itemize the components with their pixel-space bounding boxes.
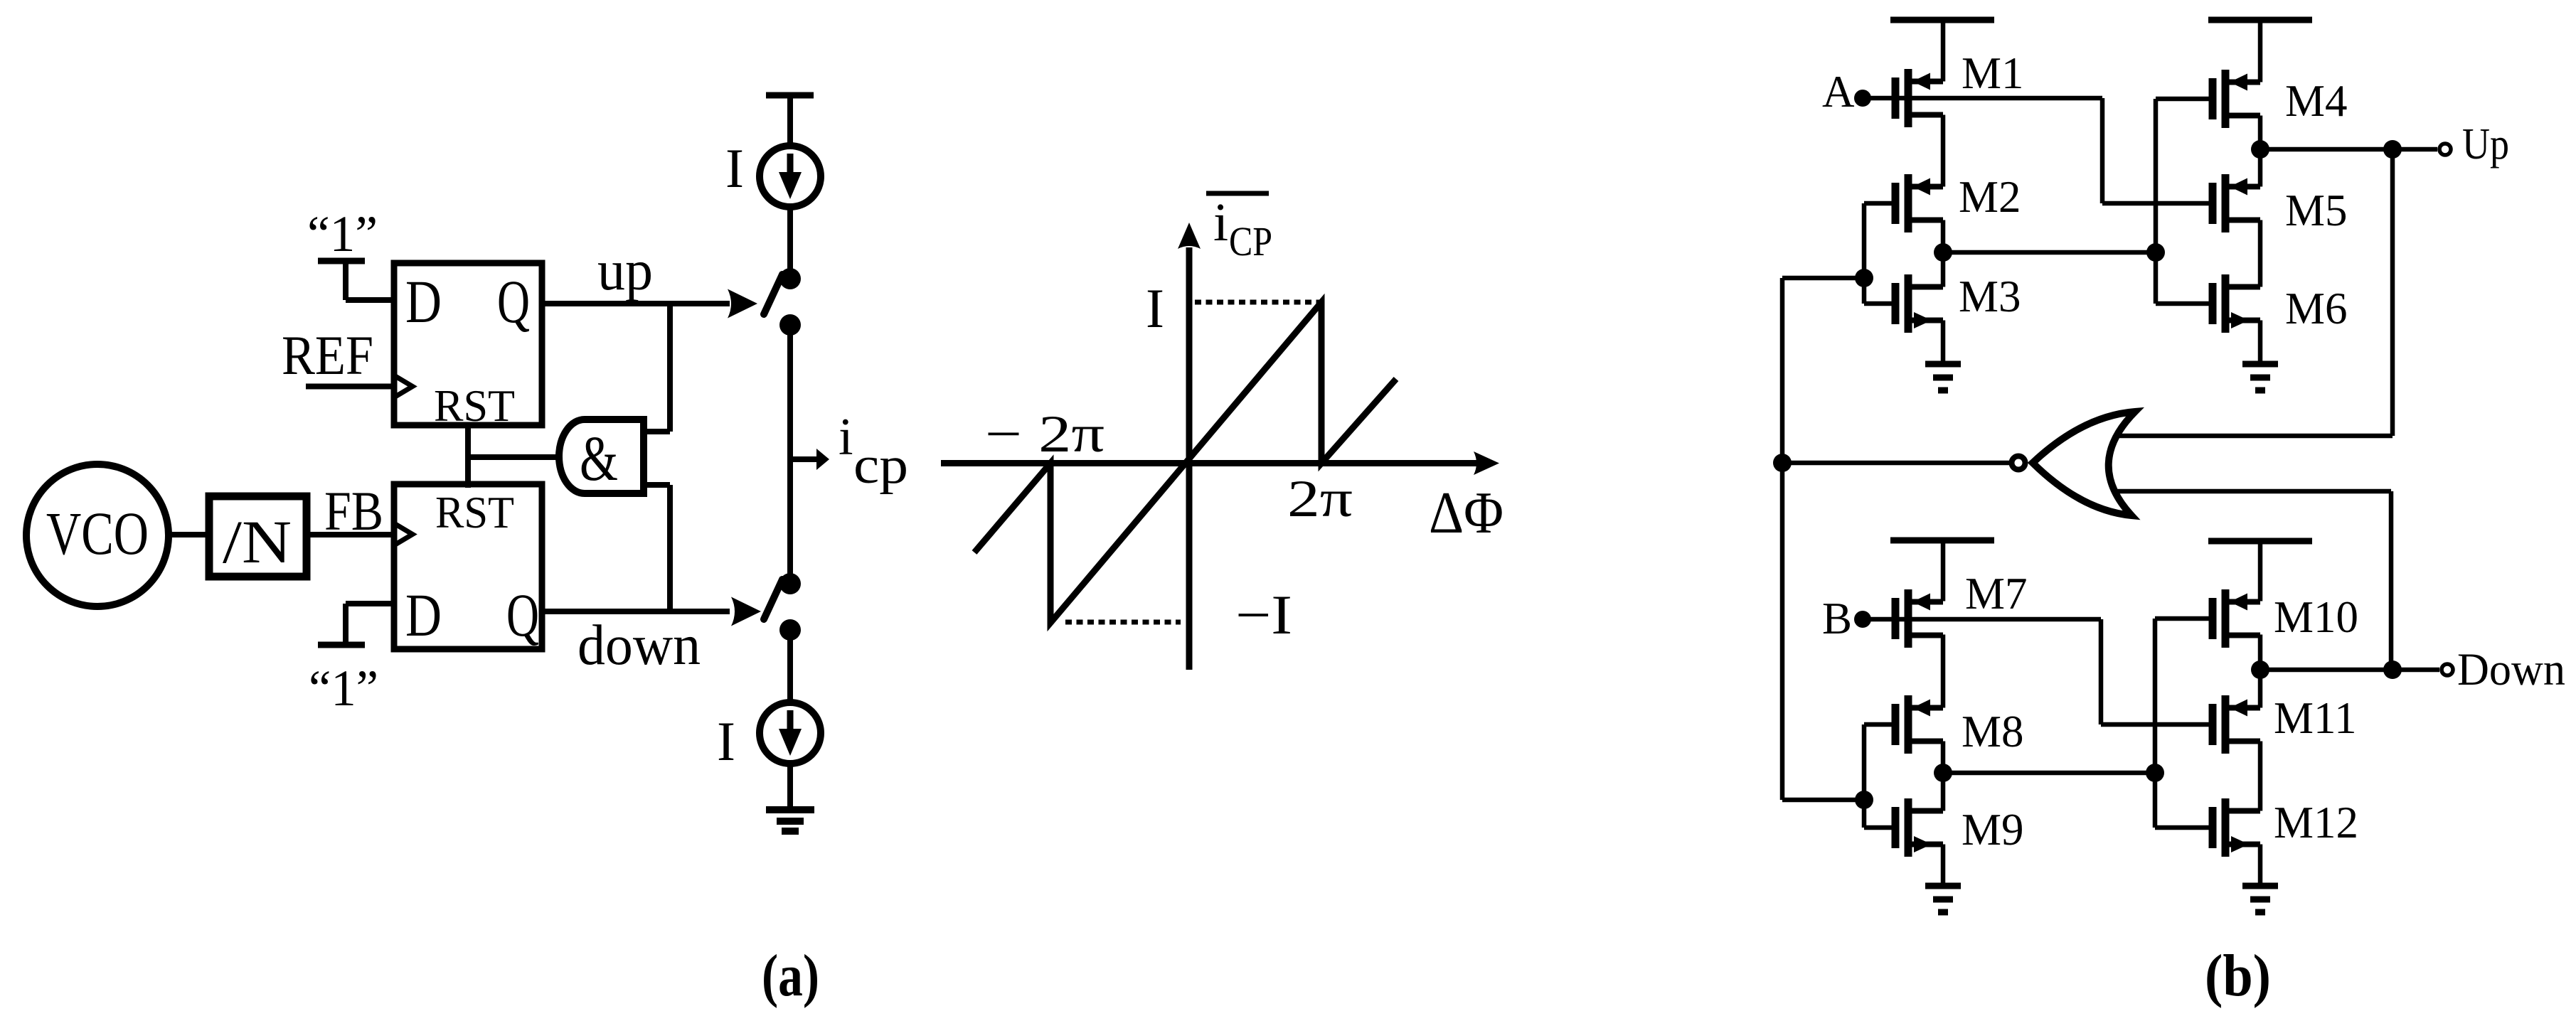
svg-text:M2: M2 <box>1959 172 2021 222</box>
svg-text:FB: FB <box>324 480 383 542</box>
svg-text:M3: M3 <box>1959 272 2021 321</box>
svg-text:M4: M4 <box>2285 76 2348 126</box>
svg-text:I: I <box>725 137 744 199</box>
svg-text:− 2π: − 2π <box>985 405 1105 464</box>
svg-text:&: & <box>580 424 618 494</box>
svg-text:CP: CP <box>1229 218 1272 264</box>
svg-text:down: down <box>578 614 701 677</box>
svg-text:/N: /N <box>223 508 292 576</box>
svg-text:i: i <box>839 408 853 466</box>
svg-text:M5: M5 <box>2285 186 2348 235</box>
svg-text:i: i <box>1213 193 1228 252</box>
svg-text:M11: M11 <box>2274 693 2357 743</box>
svg-text:M10: M10 <box>2274 592 2358 642</box>
svg-text:Up: Up <box>2462 120 2509 168</box>
svg-text:M1: M1 <box>1962 48 2024 98</box>
svg-text:(b): (b) <box>2205 943 2271 1009</box>
svg-text:RST: RST <box>434 380 515 431</box>
svg-text:−I: −I <box>1235 584 1292 646</box>
svg-text:M6: M6 <box>2285 284 2348 333</box>
svg-text:Q: Q <box>497 267 530 336</box>
svg-text:M8: M8 <box>1962 707 2024 756</box>
svg-text:REF: REF <box>282 324 373 386</box>
svg-text:D: D <box>405 267 442 336</box>
svg-text:cp: cp <box>853 437 908 495</box>
svg-text:VCO: VCO <box>46 499 149 567</box>
svg-text:(a): (a) <box>762 943 819 1009</box>
svg-text:2π: 2π <box>1287 470 1353 528</box>
svg-text:RST: RST <box>435 487 514 537</box>
svg-text:I: I <box>1146 277 1164 339</box>
svg-text:A: A <box>1822 67 1855 117</box>
svg-text:Down: Down <box>2457 644 2565 695</box>
svg-text:M12: M12 <box>2274 798 2358 847</box>
svg-text:D: D <box>405 581 442 649</box>
svg-text:“1”: “1” <box>307 205 378 262</box>
svg-text:M7: M7 <box>1965 569 2028 619</box>
svg-text:B: B <box>1822 594 1852 643</box>
svg-text:I: I <box>717 710 735 772</box>
svg-text:M9: M9 <box>1962 805 2024 855</box>
svg-text:ΔΦ: ΔΦ <box>1429 480 1503 546</box>
svg-text:Q: Q <box>506 581 539 649</box>
svg-text:“1”: “1” <box>309 660 378 717</box>
svg-text:up: up <box>597 240 653 302</box>
